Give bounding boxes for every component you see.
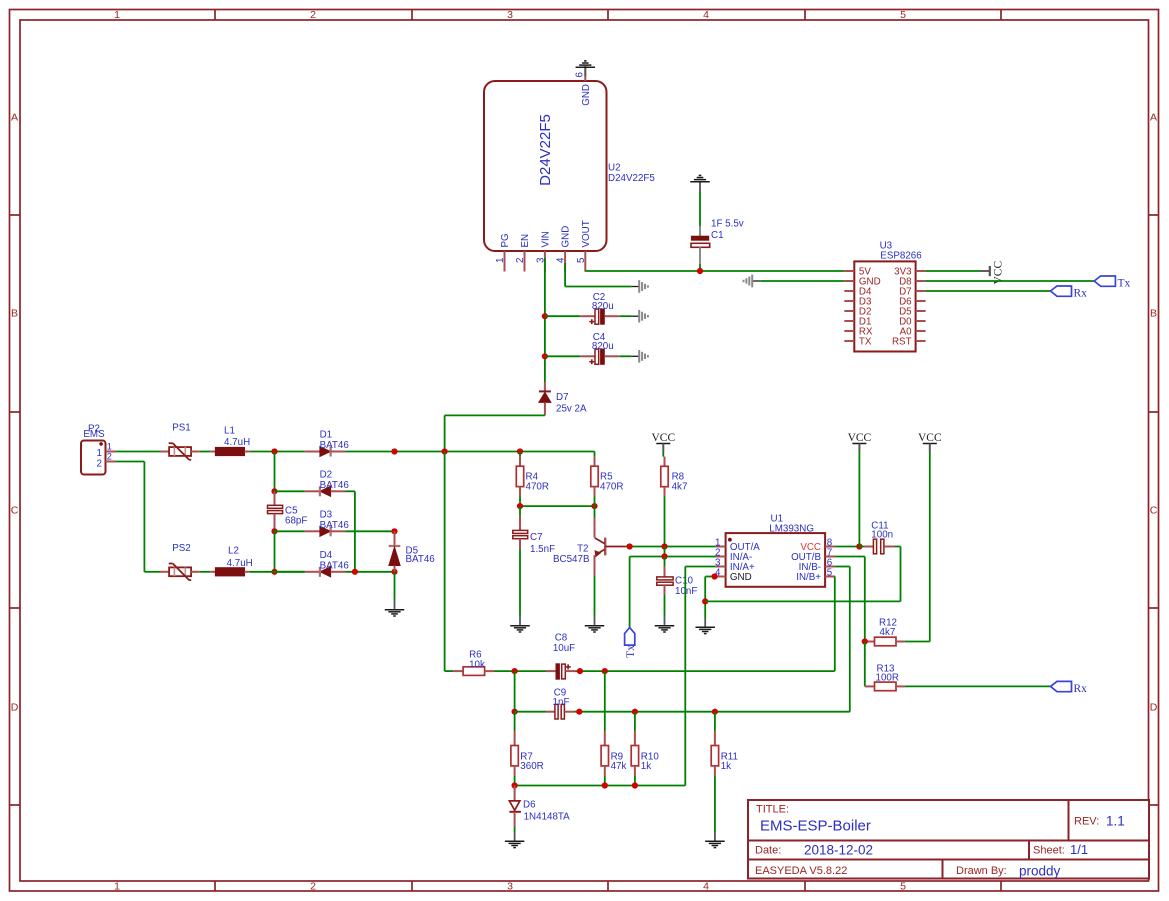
svg-text:L2: L2 [228,546,239,557]
svg-text:2: 2 [97,459,102,470]
svg-text:2: 2 [107,452,112,462]
svg-text:D1: D1 [320,430,333,441]
wire U1 pin3 to bottom row [685,567,715,786]
svg-text:D24V22F5: D24V22F5 [608,173,655,184]
junction VIN/C4 [542,353,548,359]
U1 pin 1 OUT/A [715,537,760,553]
svg-text:5: 5 [900,881,906,893]
svg-text:A: A [11,112,18,124]
junction C10 / pin2 row [661,553,667,559]
wire C1 bottom to VOUT net [699,264,701,271]
svg-text:D: D [11,702,19,714]
port Rx (net flag, lower) [1051,681,1088,695]
U3 left pin RX [844,326,873,337]
svg-text:1nF: 1nF [553,697,570,708]
wire U2 GND pin to ground [565,263,631,287]
junction C5 / D2 row [271,488,277,494]
U2 pin 2 EN [515,234,531,272]
svg-text:Sheet:: Sheet: [1033,845,1065,857]
svg-text:Date:: Date: [755,845,781,857]
svg-text:BC547B: BC547B [553,554,590,565]
wire R7 column between rows [514,671,516,712]
U3 left pin TX [844,336,872,347]
junction R8 / pin1 row [661,543,667,549]
svg-text:GND: GND [581,84,592,106]
svg-text:IN/B+: IN/B+ [796,572,821,583]
svg-text:proddy: proddy [1019,864,1061,879]
junction bottom row / R10 [632,782,638,788]
U3 left pin D4 [844,286,872,297]
junction C5 / D3 row [271,528,277,534]
junction VOUT/C1 [697,268,703,274]
svg-text:D3: D3 [320,509,333,520]
svg-text:2: 2 [310,881,316,893]
svg-text:100n: 100n [871,529,893,540]
wire U1 pin8 to VCC and C11 [835,546,859,548]
surge suppressor PS2 [160,543,200,580]
junction R6 / R7 column [511,668,517,674]
title block text Sheet: 1/1 [1033,842,1088,857]
junction R4 / C7 [517,503,523,509]
wire bottom row (R7,R9,R10 commons) [515,785,686,787]
svg-text:BAT46: BAT46 [320,560,350,571]
svg-text:2: 2 [310,9,316,21]
svg-text:1F 5.5v: 1F 5.5v [711,219,744,230]
capacitor C4 820u [545,332,620,364]
title block text REV: 1.1 [1074,814,1125,829]
svg-text:T2: T2 [577,544,588,555]
wire Tx column down [629,557,631,628]
capacitor C1 1F 5.5v [691,219,744,265]
U1 pin 7 OUT/B [791,547,835,563]
svg-text:D4: D4 [320,550,333,561]
svg-text:1N4148TA: 1N4148TA [524,812,571,823]
title block box [748,800,1149,879]
U3 right pin RST [892,336,926,347]
U3 right pin D0 [899,316,926,327]
wire ESP 3V3 to VCC [926,270,980,272]
wire pin7 column down to R13 [864,642,866,687]
junction D4 row / D2 branch [352,569,358,575]
wire VIN column down to D7 [544,258,546,382]
svg-text:68pF: 68pF [285,515,307,526]
U3 left pin D2 [844,306,871,317]
wire C10 to ground [664,595,666,616]
wire L1 to D1 [250,451,305,453]
U3 left pin GND [844,276,880,287]
junction D4 / D5 bottom [391,569,397,575]
svg-text:C8: C8 [555,632,568,643]
inductor L2 4.7uH [210,546,252,576]
junction U1 GND pin [712,573,718,579]
U3 right pin D6 [899,296,926,307]
svg-text:PG: PG [500,233,511,247]
svg-text:5: 5 [576,257,587,263]
wire R8 column to pin2 row [664,547,666,557]
svg-text:Rx: Rx [1074,683,1088,695]
diode D7 25v 2A (zener to VIN) [539,382,587,415]
svg-text:VIN: VIN [540,231,551,247]
svg-text:4: 4 [556,257,567,263]
svg-text:BAT46: BAT46 [320,520,350,531]
svg-text:5: 5 [827,567,833,578]
wire R8 down to U1 pin1 row [664,497,666,547]
U1 reference label U1 / LM393NG [769,514,814,535]
title block text EASYEDA V5.8.22 [755,865,847,877]
resistor R10 1k [631,712,659,786]
wire rail corner to R6 [445,670,454,672]
resistor R13 100R [865,663,905,690]
resistor R6 10k [453,650,494,676]
title block text TITLE: EMS-ESP-Boiler [756,804,871,835]
diode D1 BAT46 [305,430,350,457]
resistor R9 47k [601,671,626,785]
capacitor C8 10uF [546,632,576,679]
svg-text:1k: 1k [721,761,731,772]
U3 right pin D5 [899,306,926,317]
diode D3 BAT46 [275,509,350,536]
inductor L1 4.7uH [210,426,250,456]
junction R5 / T2 collector [591,503,597,509]
U1 pin 5 IN/B+ [796,567,835,583]
wire C2 right [620,315,632,317]
wire U1 pin7 to R12/R13 [835,557,865,642]
U2 pin 5 VOUT [576,220,592,271]
resistor R11 1k [711,712,738,776]
svg-text:B: B [1150,308,1157,320]
wire T2 base to U1 pin1 [625,546,716,548]
diode D4 BAT46 [275,550,350,577]
wire GND net to C11 return [705,547,900,602]
U3 right pin 3V3 [894,266,925,277]
svg-text:D6: D6 [523,800,536,811]
junction rail / R4 [517,448,523,454]
VCC net flag above R8 [651,432,675,452]
connector P2 EMS [81,424,106,475]
port Rx (net flag) [1051,286,1088,300]
junction C9 right [576,709,582,715]
wire rail down to R6 row [444,452,446,672]
wire C7 to ground [519,549,521,616]
junction C8 right [577,668,583,674]
wire VCC to pin8 row [858,452,860,547]
junction pin7 / R12 / R13 [862,638,868,644]
svg-text:25v 2A: 25v 2A [556,404,587,415]
svg-text:Drawn By:: Drawn By: [956,865,1007,877]
wire D3 to D5 top [346,530,395,532]
svg-text:3: 3 [507,881,513,893]
svg-text:360R: 360R [520,761,543,772]
svg-text:VCC: VCC [848,432,872,444]
diode D2 BAT46 [275,469,350,496]
U3 left pin D1 [844,316,871,327]
wire ESP D7 to port Rx [926,290,1051,292]
junction GND net split [702,598,708,604]
svg-text:1: 1 [114,881,120,893]
frame row labels right [1150,112,1158,714]
svg-text:470R: 470R [600,481,623,492]
junction pin8 / VCC / C11 [856,543,862,549]
svg-text:1.1: 1.1 [1106,814,1125,829]
svg-text:C1: C1 [711,230,724,241]
ground below D5 [385,600,405,616]
U3 left pin 5V [844,266,871,277]
svg-text:4: 4 [703,881,709,893]
svg-text:1: 1 [107,441,112,451]
svg-text:RST: RST [892,336,912,347]
wire D1 to rail junctions [346,451,595,453]
svg-text:C: C [11,505,19,517]
svg-text:5: 5 [900,9,906,21]
svg-text:D: D [1150,702,1158,714]
svg-text:10uF: 10uF [553,643,575,654]
svg-text:C: C [1150,505,1158,517]
svg-text:4.7uH: 4.7uH [224,437,250,448]
svg-text:GND: GND [730,572,752,583]
capacitor C9 1nF [515,687,575,719]
U1 pin 3 IN/A+ [715,557,755,573]
wire R13 to port Rx [905,685,1051,687]
capacitor C5 68pF [268,491,308,531]
svg-text:Tx: Tx [625,645,637,658]
junction bottom row / R9 [602,782,608,788]
capacitor C11 100n [859,521,895,554]
capacitor C10 10nF [657,557,698,598]
junction base row [627,543,633,549]
title block text Drawn By: proddy [956,864,1061,879]
ground at U2 pin 6 [576,61,596,77]
resistor R7 360R [511,712,544,786]
svg-text:1/1: 1/1 [1070,842,1088,857]
junction C9 row / R10 column [632,709,638,715]
wire C11 right to GND return [895,546,901,548]
svg-text:EMS-ESP-Boiler: EMS-ESP-Boiler [760,818,871,835]
wire C9 right along row to U1 pin6 column [575,711,850,713]
svg-text:100R: 100R [876,673,899,684]
ESP8266 module U3 body [854,261,915,351]
svg-text:C7: C7 [530,532,543,543]
U1 pin 8 VCC [800,537,835,553]
wire U1 pin5 to R6 row [834,577,836,672]
svg-text:D7: D7 [556,392,569,403]
ground (sideways) at C2 [631,310,648,323]
svg-text:REV:: REV: [1074,816,1099,828]
svg-text:6: 6 [575,72,586,78]
svg-text:4.7uH: 4.7uH [227,558,253,569]
U3 left pin D3 [844,296,872,307]
U2 reference label U2 / D24V22F5 [608,163,655,185]
wire P2 pin2 down to PS2 [116,462,160,572]
U1 pin 6 IN/B- [799,557,835,573]
svg-text:3: 3 [507,9,513,21]
frame column labels bottom [114,881,906,893]
wire PS2 to L2 [200,571,211,573]
svg-text:VCC: VCC [651,432,675,444]
svg-text:10k: 10k [469,659,485,670]
capacitor C7 1.5nF [513,506,555,555]
svg-text:BAT46: BAT46 [320,480,350,491]
ground below U1 GND [695,618,715,634]
U3 reference label U3 / ESP8266 [880,241,923,262]
svg-text:ESP8266: ESP8266 [880,251,922,262]
ground below T2 emitter [585,616,605,632]
wire D6 to ground [514,827,516,832]
wire C5 column [274,452,276,492]
svg-text:C10: C10 [675,576,694,587]
svg-text:Tx: Tx [1118,278,1131,290]
svg-text:L1: L1 [224,426,235,437]
ground below R11 [705,832,725,848]
junction VIN/C2 [542,313,548,319]
svg-text:LM393NG: LM393NG [769,524,814,535]
wire C5 column lower [274,531,276,572]
port Tx (net flag, bottom) [625,628,638,658]
svg-text:820u: 820u [592,301,614,312]
junction R6 row / R9 column [602,668,608,674]
ground below D6 [505,832,524,848]
svg-text:470R: 470R [526,481,549,492]
svg-text:TX: TX [859,336,872,347]
junction rail / D5 column [391,448,397,454]
P2 pin 2 [106,452,117,462]
svg-text:4: 4 [703,9,709,21]
svg-text:PS2: PS2 [172,543,191,554]
svg-text:1.5nF: 1.5nF [530,544,555,555]
svg-text:PS1: PS1 [172,423,191,434]
wire C8 right along row to U1 pin5 column [576,670,835,672]
ground below C7 [510,616,530,632]
svg-text:U2: U2 [608,163,621,174]
comparator U1 LM393NG body [726,533,826,587]
regulator module U2 body [484,81,607,251]
diode D6 1N4148TA [509,786,570,828]
junction rail / R6 column [442,448,448,454]
U2 pin 4 GND [556,226,572,272]
svg-text:1: 1 [97,448,102,459]
port Tx (net flag) [1094,276,1130,290]
svg-text:2: 2 [515,258,526,263]
junction D3 / D5 top [391,528,397,534]
wire P2 pin1 to PS1 [116,451,160,453]
wire D5 bottom to ground [394,572,396,601]
wire L2 to D4 [250,571,305,573]
U1 pin 4 GND [715,567,752,583]
wire R11 to ground [714,776,716,832]
U2 pin 6 GND top [575,66,592,106]
diode D5 BAT46 (vertical) [389,531,436,572]
wire C4 right [620,355,632,357]
svg-text:1: 1 [495,258,506,263]
wire PS1 to L1 [200,451,211,453]
capacitor C2 820u [545,292,620,324]
resistor R8 4k7 [661,452,688,497]
svg-text:EN: EN [520,234,531,248]
wire U1 pin6 to C9 row [835,567,850,712]
svg-text:1k: 1k [641,761,651,772]
frame row labels left [11,112,19,714]
wire ESP GND to ground [761,280,845,282]
ground (sideways) at U2 GND net [631,280,648,293]
wire D4 to D5 bottom [346,571,395,573]
resistor R12 4k7 [865,617,905,645]
wire VOUT row from U2 pin5 to ESP 5V [585,270,844,273]
wire R6 to C8 [495,670,547,672]
junction bottom row / R7-D6 [511,782,517,788]
wire R4-R5 row [520,505,595,507]
svg-text:GND: GND [561,226,572,248]
svg-text:2018-12-02: 2018-12-02 [804,842,873,857]
wire D7 to main rail [445,415,545,451]
svg-text:B: B [11,308,18,320]
wire U1 GND pin down [705,577,715,619]
wire VCC2 down to R12 [905,452,930,642]
svg-text:BAT46: BAT46 [406,554,436,565]
title block text Date: 2018-12-02 [755,842,873,857]
VCC net flag above R12 [918,432,942,452]
VCC net flag above C11 [848,432,872,452]
U1 pin 2 IN/A- [715,547,752,563]
junction C9 row / R7 column [511,709,517,715]
U3 right pin D8 [899,276,926,287]
wire C1 top [699,191,701,226]
U2 pin 3 VIN [535,231,551,271]
svg-text:1: 1 [114,9,120,21]
surge suppressor PS1 [160,423,200,460]
svg-text:4k7: 4k7 [672,481,688,492]
U2 pin 1 PG [495,233,511,271]
svg-text:47k: 47k [611,761,627,772]
wire U1 pin2 row [630,556,716,558]
svg-text:4k7: 4k7 [880,627,896,638]
svg-text:Rx: Rx [1074,288,1088,300]
svg-text:EASYEDA V5.8.22: EASYEDA V5.8.22 [755,865,847,877]
svg-text:VOUT: VOUT [581,220,592,247]
P2 pin 1 [106,441,117,451]
ground below C10 [655,616,675,632]
svg-text:820u: 820u [592,341,614,352]
svg-text:VCC: VCC [918,432,942,444]
ground (sideways) at ESP GND [744,275,761,288]
ground (sideways) at C4 [631,350,648,363]
svg-text:BAT46: BAT46 [320,440,350,451]
transistor T2 BC547B [553,506,625,575]
svg-text:A: A [1150,112,1157,124]
svg-text:EMS: EMS [83,429,105,440]
wire D2 to D4 row [346,491,355,572]
VCC net flag at ESP 3V3 (rotated) [980,261,1005,285]
frame column labels top [114,9,906,21]
resistor R4 470R [516,452,549,507]
junction C9 row / R11 column [712,709,718,715]
resistor R5 470R [591,452,624,507]
svg-text:D2: D2 [320,469,333,480]
U3 right pin A0 [900,326,926,337]
junction main rail / C5 column [271,448,277,454]
svg-text:D24V22F5: D24V22F5 [537,114,554,186]
wire ESP D8 to port Tx [926,280,1095,282]
svg-text:TITLE:: TITLE: [756,804,789,816]
junction C5 / D4 row [271,569,277,575]
ground above C1 [690,175,710,191]
U3 right pin D7 [899,286,926,297]
wire T2 emitter to ground [594,576,596,617]
